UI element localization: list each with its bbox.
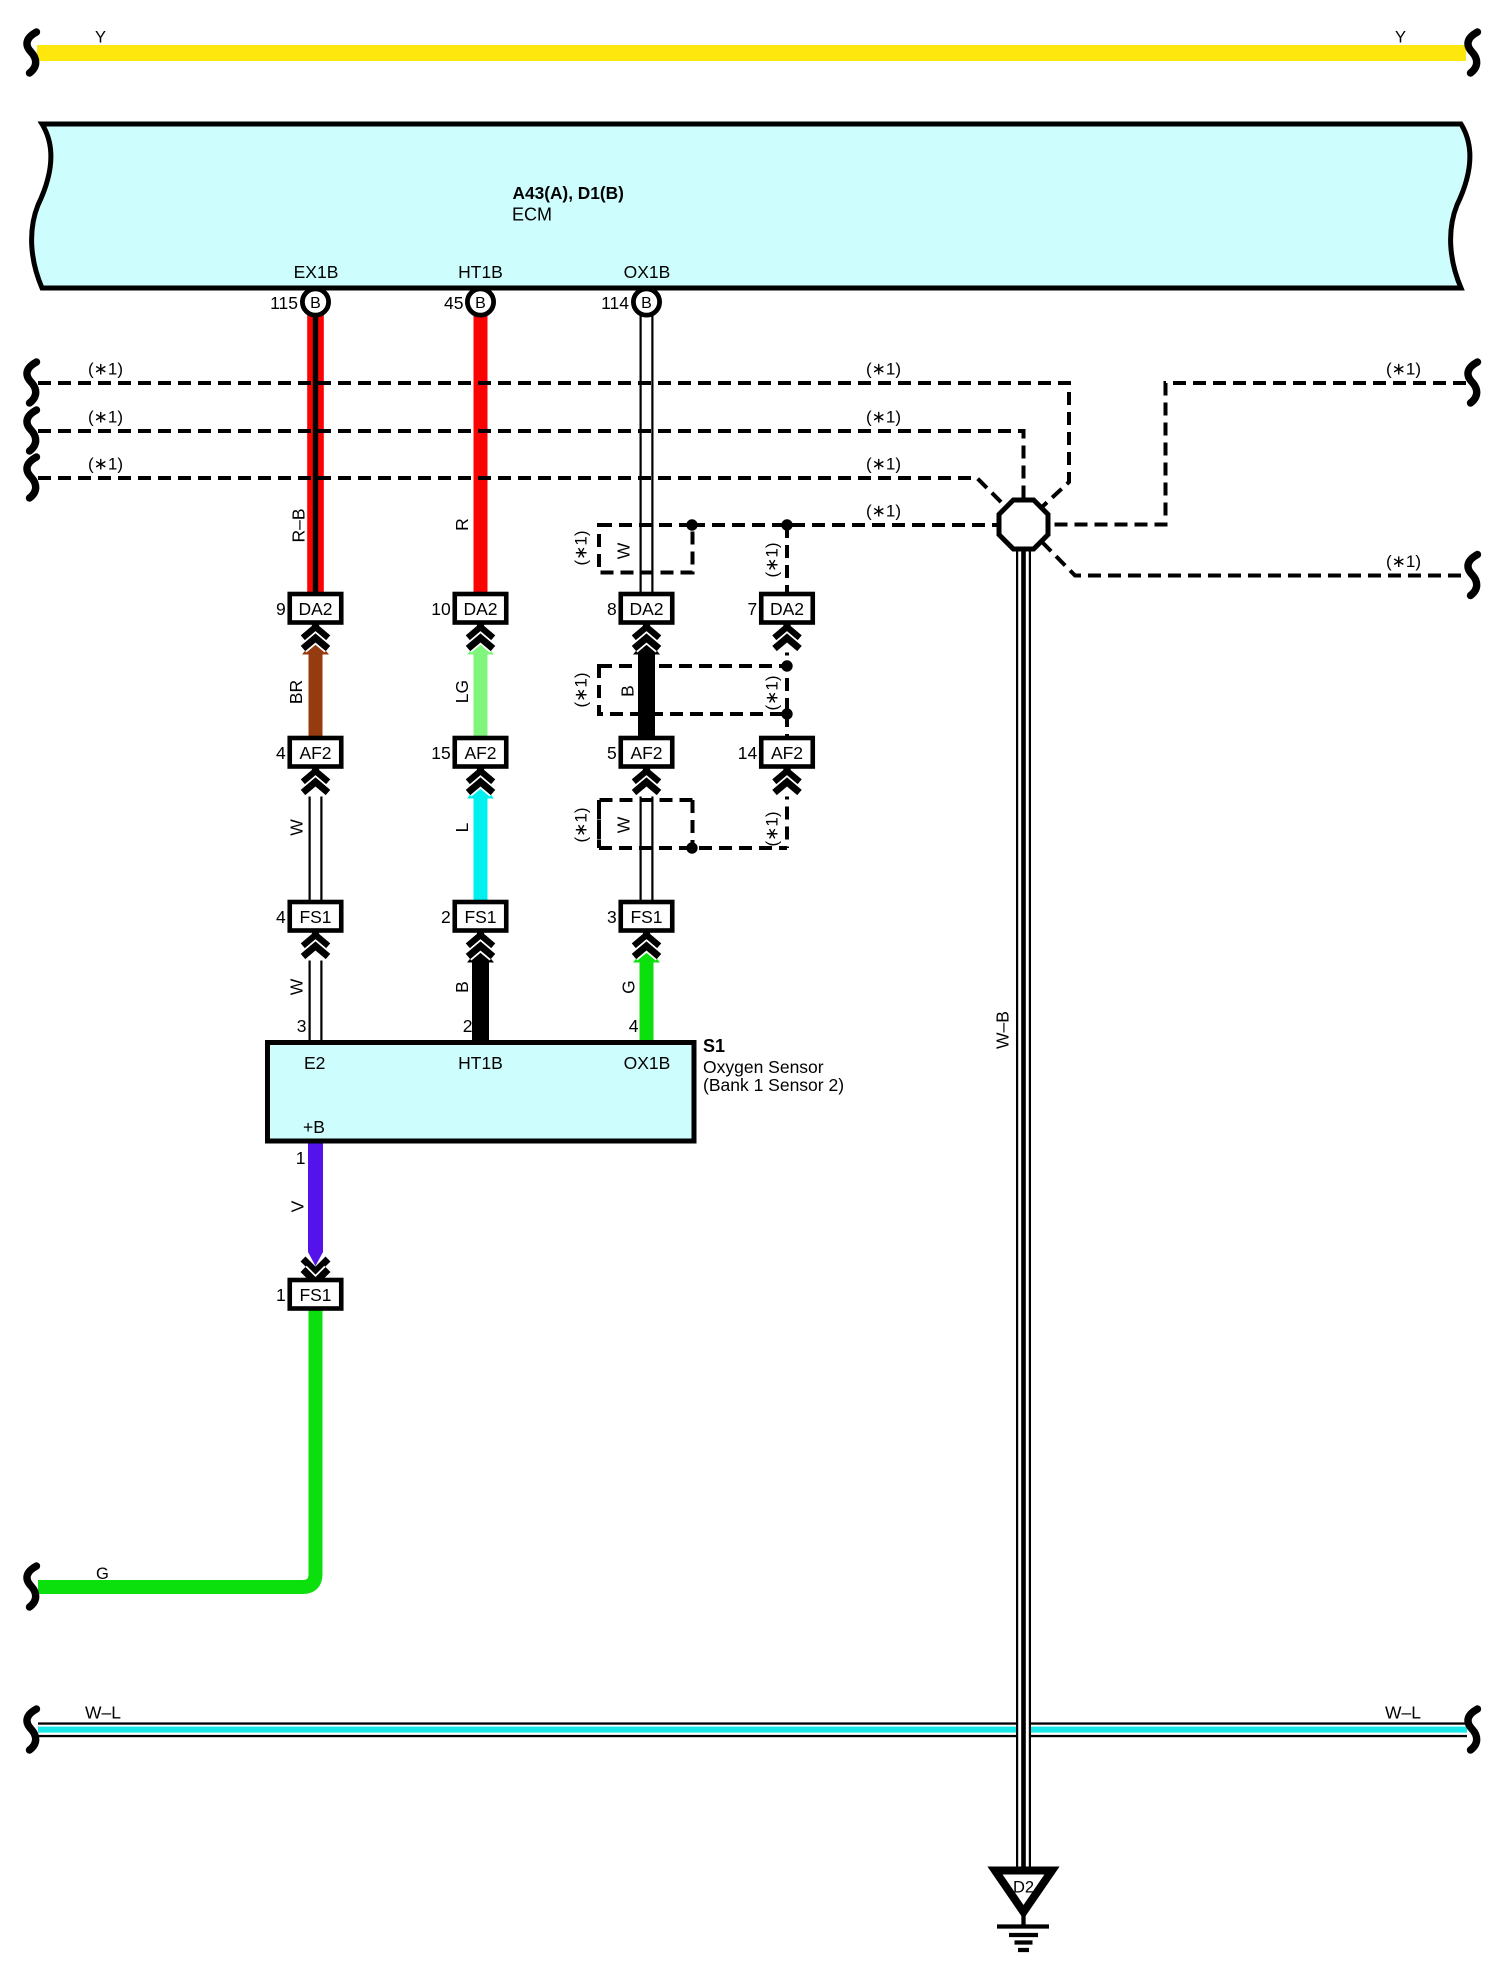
svg-text:15: 15 xyxy=(431,743,450,763)
svg-text:2: 2 xyxy=(463,1016,473,1036)
svg-text:3: 3 xyxy=(297,1016,307,1036)
svg-text:4: 4 xyxy=(629,1016,639,1036)
svg-text:DA2: DA2 xyxy=(463,599,497,619)
svg-text:W: W xyxy=(614,816,634,833)
svg-text:(∗1): (∗1) xyxy=(572,672,591,707)
svg-text:8: 8 xyxy=(607,599,617,619)
svg-text:W–B: W–B xyxy=(993,1011,1013,1049)
svg-text:(∗1): (∗1) xyxy=(866,455,901,474)
svg-text:115: 115 xyxy=(270,293,298,313)
svg-text:9: 9 xyxy=(276,599,286,619)
svg-text:10: 10 xyxy=(431,599,451,619)
svg-text:EX1B: EX1B xyxy=(294,262,339,282)
svg-text:3: 3 xyxy=(607,907,617,927)
svg-text:HT1B: HT1B xyxy=(458,262,503,282)
svg-text:D2: D2 xyxy=(1013,1879,1034,1897)
svg-text:B: B xyxy=(641,295,652,312)
svg-text:5: 5 xyxy=(607,743,617,763)
svg-text:AF2: AF2 xyxy=(771,743,803,763)
svg-text:G: G xyxy=(619,980,639,994)
svg-text:(∗1): (∗1) xyxy=(88,360,123,379)
svg-text:(Bank 1 Sensor 2): (Bank 1 Sensor 2) xyxy=(703,1075,844,1095)
svg-text:4: 4 xyxy=(276,743,286,763)
svg-text:DA2: DA2 xyxy=(629,599,663,619)
svg-text:(∗1): (∗1) xyxy=(1386,360,1421,379)
svg-text:(∗1): (∗1) xyxy=(1386,552,1421,571)
svg-text:AF2: AF2 xyxy=(630,743,662,763)
svg-text:W–L: W–L xyxy=(85,1703,121,1723)
svg-text:W: W xyxy=(287,819,307,836)
svg-text:A43(A), D1(B): A43(A), D1(B) xyxy=(513,183,624,203)
svg-text:FS1: FS1 xyxy=(464,907,496,927)
svg-text:(∗1): (∗1) xyxy=(88,455,123,474)
svg-text:AF2: AF2 xyxy=(299,743,331,763)
svg-text:B: B xyxy=(452,981,472,993)
svg-text:LG: LG xyxy=(452,680,472,703)
svg-text:+B: +B xyxy=(303,1117,325,1137)
svg-text:DA2: DA2 xyxy=(770,599,804,619)
svg-text:(∗1): (∗1) xyxy=(866,360,901,379)
svg-text:Y: Y xyxy=(1395,29,1406,47)
svg-text:45: 45 xyxy=(444,293,463,313)
svg-text:FS1: FS1 xyxy=(630,907,662,927)
svg-text:W: W xyxy=(287,978,307,995)
svg-text:DA2: DA2 xyxy=(298,599,332,619)
svg-text:FS1: FS1 xyxy=(299,1285,331,1305)
svg-text:BR: BR xyxy=(286,680,306,704)
svg-text:(∗1): (∗1) xyxy=(572,807,591,842)
svg-text:FS1: FS1 xyxy=(299,907,331,927)
svg-text:ECM: ECM xyxy=(512,205,552,225)
svg-text:R–B: R–B xyxy=(289,508,309,542)
svg-text:E2: E2 xyxy=(304,1053,325,1073)
svg-text:OX1B: OX1B xyxy=(624,1053,671,1073)
svg-text:(∗1): (∗1) xyxy=(88,408,123,427)
svg-text:B: B xyxy=(618,685,638,697)
svg-text:AF2: AF2 xyxy=(464,743,496,763)
svg-text:R: R xyxy=(452,518,472,531)
svg-text:114: 114 xyxy=(601,293,629,313)
svg-text:1: 1 xyxy=(296,1148,306,1168)
svg-text:B: B xyxy=(475,295,486,312)
svg-text:4: 4 xyxy=(276,907,286,927)
svg-text:(∗1): (∗1) xyxy=(572,530,591,565)
svg-text:L: L xyxy=(452,822,472,832)
svg-text:S1: S1 xyxy=(703,1036,725,1056)
svg-text:Y: Y xyxy=(95,29,106,47)
svg-text:OX1B: OX1B xyxy=(624,262,671,282)
svg-text:7: 7 xyxy=(748,599,758,619)
svg-text:2: 2 xyxy=(441,907,451,927)
svg-text:1: 1 xyxy=(276,1285,286,1305)
svg-text:Oxygen Sensor: Oxygen Sensor xyxy=(703,1057,824,1077)
svg-text:W: W xyxy=(614,542,634,559)
svg-text:(∗1): (∗1) xyxy=(763,542,782,577)
svg-text:(∗1): (∗1) xyxy=(763,811,782,846)
svg-text:B: B xyxy=(310,295,321,312)
svg-text:V: V xyxy=(288,1200,308,1212)
svg-text:W–L: W–L xyxy=(1385,1703,1421,1723)
svg-text:HT1B: HT1B xyxy=(458,1053,503,1073)
svg-text:G: G xyxy=(96,1565,109,1583)
svg-text:(∗1): (∗1) xyxy=(763,675,782,710)
svg-text:14: 14 xyxy=(738,743,758,763)
svg-text:(∗1): (∗1) xyxy=(866,502,901,521)
svg-text:(∗1): (∗1) xyxy=(866,408,901,427)
